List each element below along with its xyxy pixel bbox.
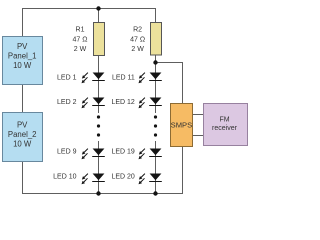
svg-text:LED 11: LED 11 [112, 74, 135, 81]
svg-text:2 W: 2 W [131, 46, 144, 53]
svg-text:SMPS: SMPS [171, 121, 193, 130]
svg-text:PV: PV [17, 121, 28, 130]
svg-text:Panel_2: Panel_2 [8, 130, 37, 139]
svg-text:R2: R2 [133, 26, 142, 33]
svg-text:LED 9: LED 9 [57, 148, 77, 155]
svg-text:10 W: 10 W [13, 140, 32, 149]
svg-text:10 W: 10 W [13, 61, 32, 70]
svg-text:LED 20: LED 20 [111, 173, 134, 180]
svg-text:LED 19: LED 19 [111, 148, 134, 155]
svg-text:PV: PV [17, 42, 28, 51]
svg-text:LED 1: LED 1 [57, 74, 77, 81]
svg-text:LED 2: LED 2 [57, 99, 77, 106]
svg-text:FM: FM [219, 117, 229, 124]
svg-text:47 Ω: 47 Ω [130, 36, 145, 43]
svg-text:R1: R1 [76, 26, 85, 33]
svg-text:LED 10: LED 10 [53, 173, 76, 180]
svg-text:47 Ω: 47 Ω [73, 36, 88, 43]
svg-text:2 W: 2 W [74, 46, 87, 53]
svg-text:receiver: receiver [212, 125, 238, 132]
svg-text:LED 12: LED 12 [111, 99, 134, 106]
svg-text:Panel_1: Panel_1 [8, 52, 37, 61]
